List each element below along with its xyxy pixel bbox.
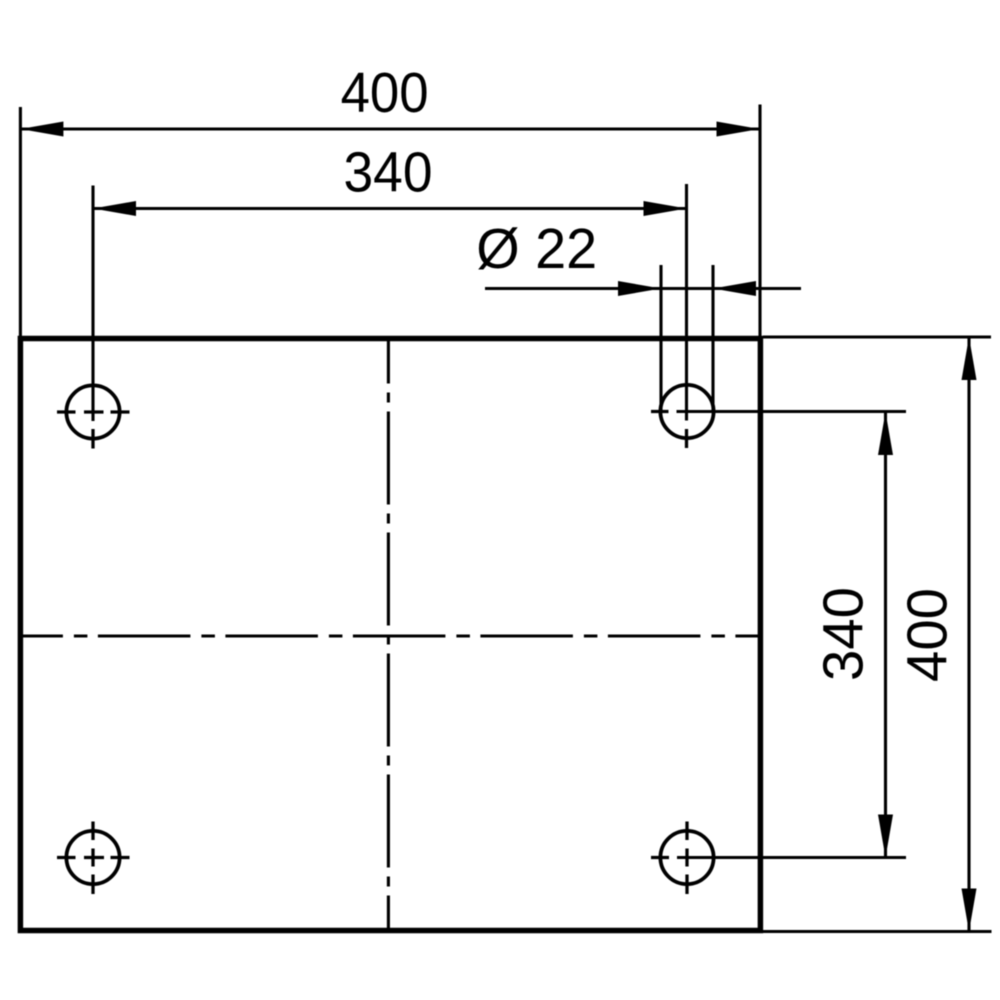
dimension 340 top: left extension line through hole bbox=[91, 186, 94, 422]
dimension 400 right: top extension line bbox=[763, 335, 991, 338]
svg-text:340: 340 bbox=[344, 141, 433, 205]
arrow 340 top right bbox=[644, 201, 687, 216]
dimension 400 top: line bbox=[20, 127, 759, 130]
hole top-right bbox=[660, 385, 713, 438]
arrow 400 right bottom (points down) bbox=[962, 889, 977, 932]
crosshair bottom-right hole (vertical dashes) bbox=[685, 822, 688, 895]
dimension 400 top: left extension line bbox=[19, 107, 22, 338]
arrow 400 right top (points up) bbox=[962, 337, 977, 380]
crosshair bottom-right hole left dash bbox=[651, 856, 669, 859]
svg-text:400: 400 bbox=[896, 588, 960, 682]
hole bottom-left bbox=[66, 831, 119, 884]
dimension 400 right: bottom extension line bbox=[763, 930, 992, 933]
svg-text:Ø 22: Ø 22 bbox=[476, 217, 597, 281]
crosshair top-right hole left dash bbox=[651, 410, 669, 413]
svg-text:400: 400 bbox=[341, 61, 429, 125]
hole top-left bbox=[66, 385, 119, 438]
hole bottom-right bbox=[660, 831, 713, 884]
dimension 340 top: line bbox=[93, 207, 687, 210]
arrow 400 top left bbox=[20, 122, 63, 137]
dimension dia22: right tangent extension line bbox=[711, 265, 714, 410]
arrow dia22 right (points left) bbox=[713, 281, 756, 296]
crosshair top-left hole (horizontal dashes) bbox=[57, 410, 130, 413]
vertical centerline bbox=[387, 339, 390, 931]
arrow 340 right top (points up) bbox=[878, 412, 893, 455]
dimension 340 top: right extension line through hole bbox=[685, 184, 688, 421]
dimension 340 right: bottom extension line from hole bbox=[677, 856, 906, 859]
arrow dia22 left (points right) bbox=[618, 281, 661, 296]
dimension 400 right: line bbox=[967, 337, 970, 932]
horizontal centerline bbox=[20, 634, 760, 637]
dimension dia22: left tangent extension line bbox=[659, 265, 662, 410]
arrow 340 top left bbox=[93, 201, 136, 216]
svg-text:340: 340 bbox=[812, 587, 876, 681]
plate outline bbox=[20, 339, 760, 931]
arrow 400 top right bbox=[717, 122, 760, 137]
dimension 340 right: line bbox=[884, 412, 887, 858]
dimension dia22: line bbox=[485, 287, 801, 290]
arrow 340 right bottom (points down) bbox=[878, 815, 893, 858]
dimension 340 right: top extension line from hole bbox=[677, 410, 907, 413]
crosshair bottom-left hole bbox=[57, 822, 130, 895]
dimension 400 top: right extension line bbox=[758, 105, 761, 337]
